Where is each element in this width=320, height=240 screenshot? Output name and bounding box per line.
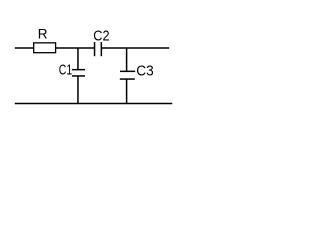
svg-text:C2: C2 [93,29,109,45]
wire [126,79,128,104]
capacitor C1 [72,70,85,76]
svg-text:C1: C1 [59,63,72,79]
capacitor C2 [95,42,102,56]
svg-text:C3: C3 [136,63,153,79]
resistor R [34,43,56,53]
capacitor C3 [120,71,135,79]
wire [15,47,34,49]
wire [101,47,169,49]
svg-text:R: R [38,26,48,42]
wire [15,103,173,105]
wire [126,48,128,71]
wire [56,47,95,49]
wire [77,76,79,104]
wire [77,48,79,70]
